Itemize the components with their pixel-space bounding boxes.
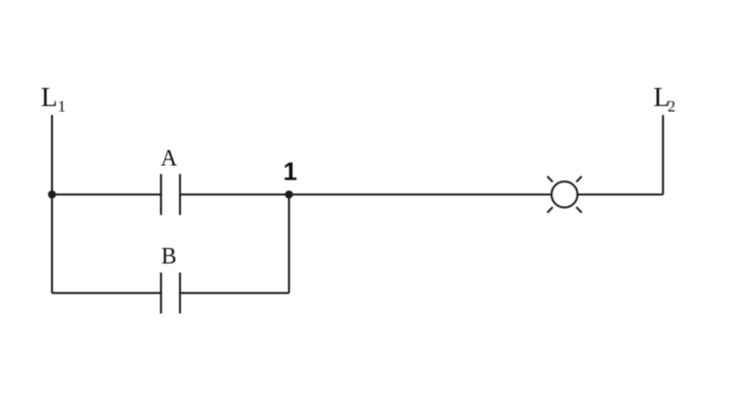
node 1 junction dot xyxy=(285,191,293,199)
wire: bottom rung left segment xyxy=(52,292,161,294)
rail L2 xyxy=(662,115,664,195)
wire: branch riser up to node 1 xyxy=(288,195,290,294)
wire: contact B to branch riser xyxy=(180,292,289,294)
svg-text:1: 1 xyxy=(283,158,297,186)
wire: node 1 to lamp xyxy=(289,194,552,196)
wire: contact A to node 1 xyxy=(180,194,289,196)
junction dot on L1 rail xyxy=(48,191,56,199)
svg-text:B: B xyxy=(161,244,176,269)
contact B (normally-open) xyxy=(160,273,162,314)
lamp PL1 (indicator lamp) xyxy=(547,176,581,212)
svg-text:1: 1 xyxy=(58,99,66,116)
wire: branch down from L1 junction xyxy=(51,195,53,294)
svg-text:L: L xyxy=(41,82,58,112)
rail L1 xyxy=(51,115,53,293)
wire: lamp to L2 rail xyxy=(578,194,664,196)
svg-text:2: 2 xyxy=(668,99,676,116)
svg-text:A: A xyxy=(161,146,178,171)
contact A (normally-open) xyxy=(160,174,162,215)
wire: L1 rail to contact A xyxy=(52,194,161,196)
